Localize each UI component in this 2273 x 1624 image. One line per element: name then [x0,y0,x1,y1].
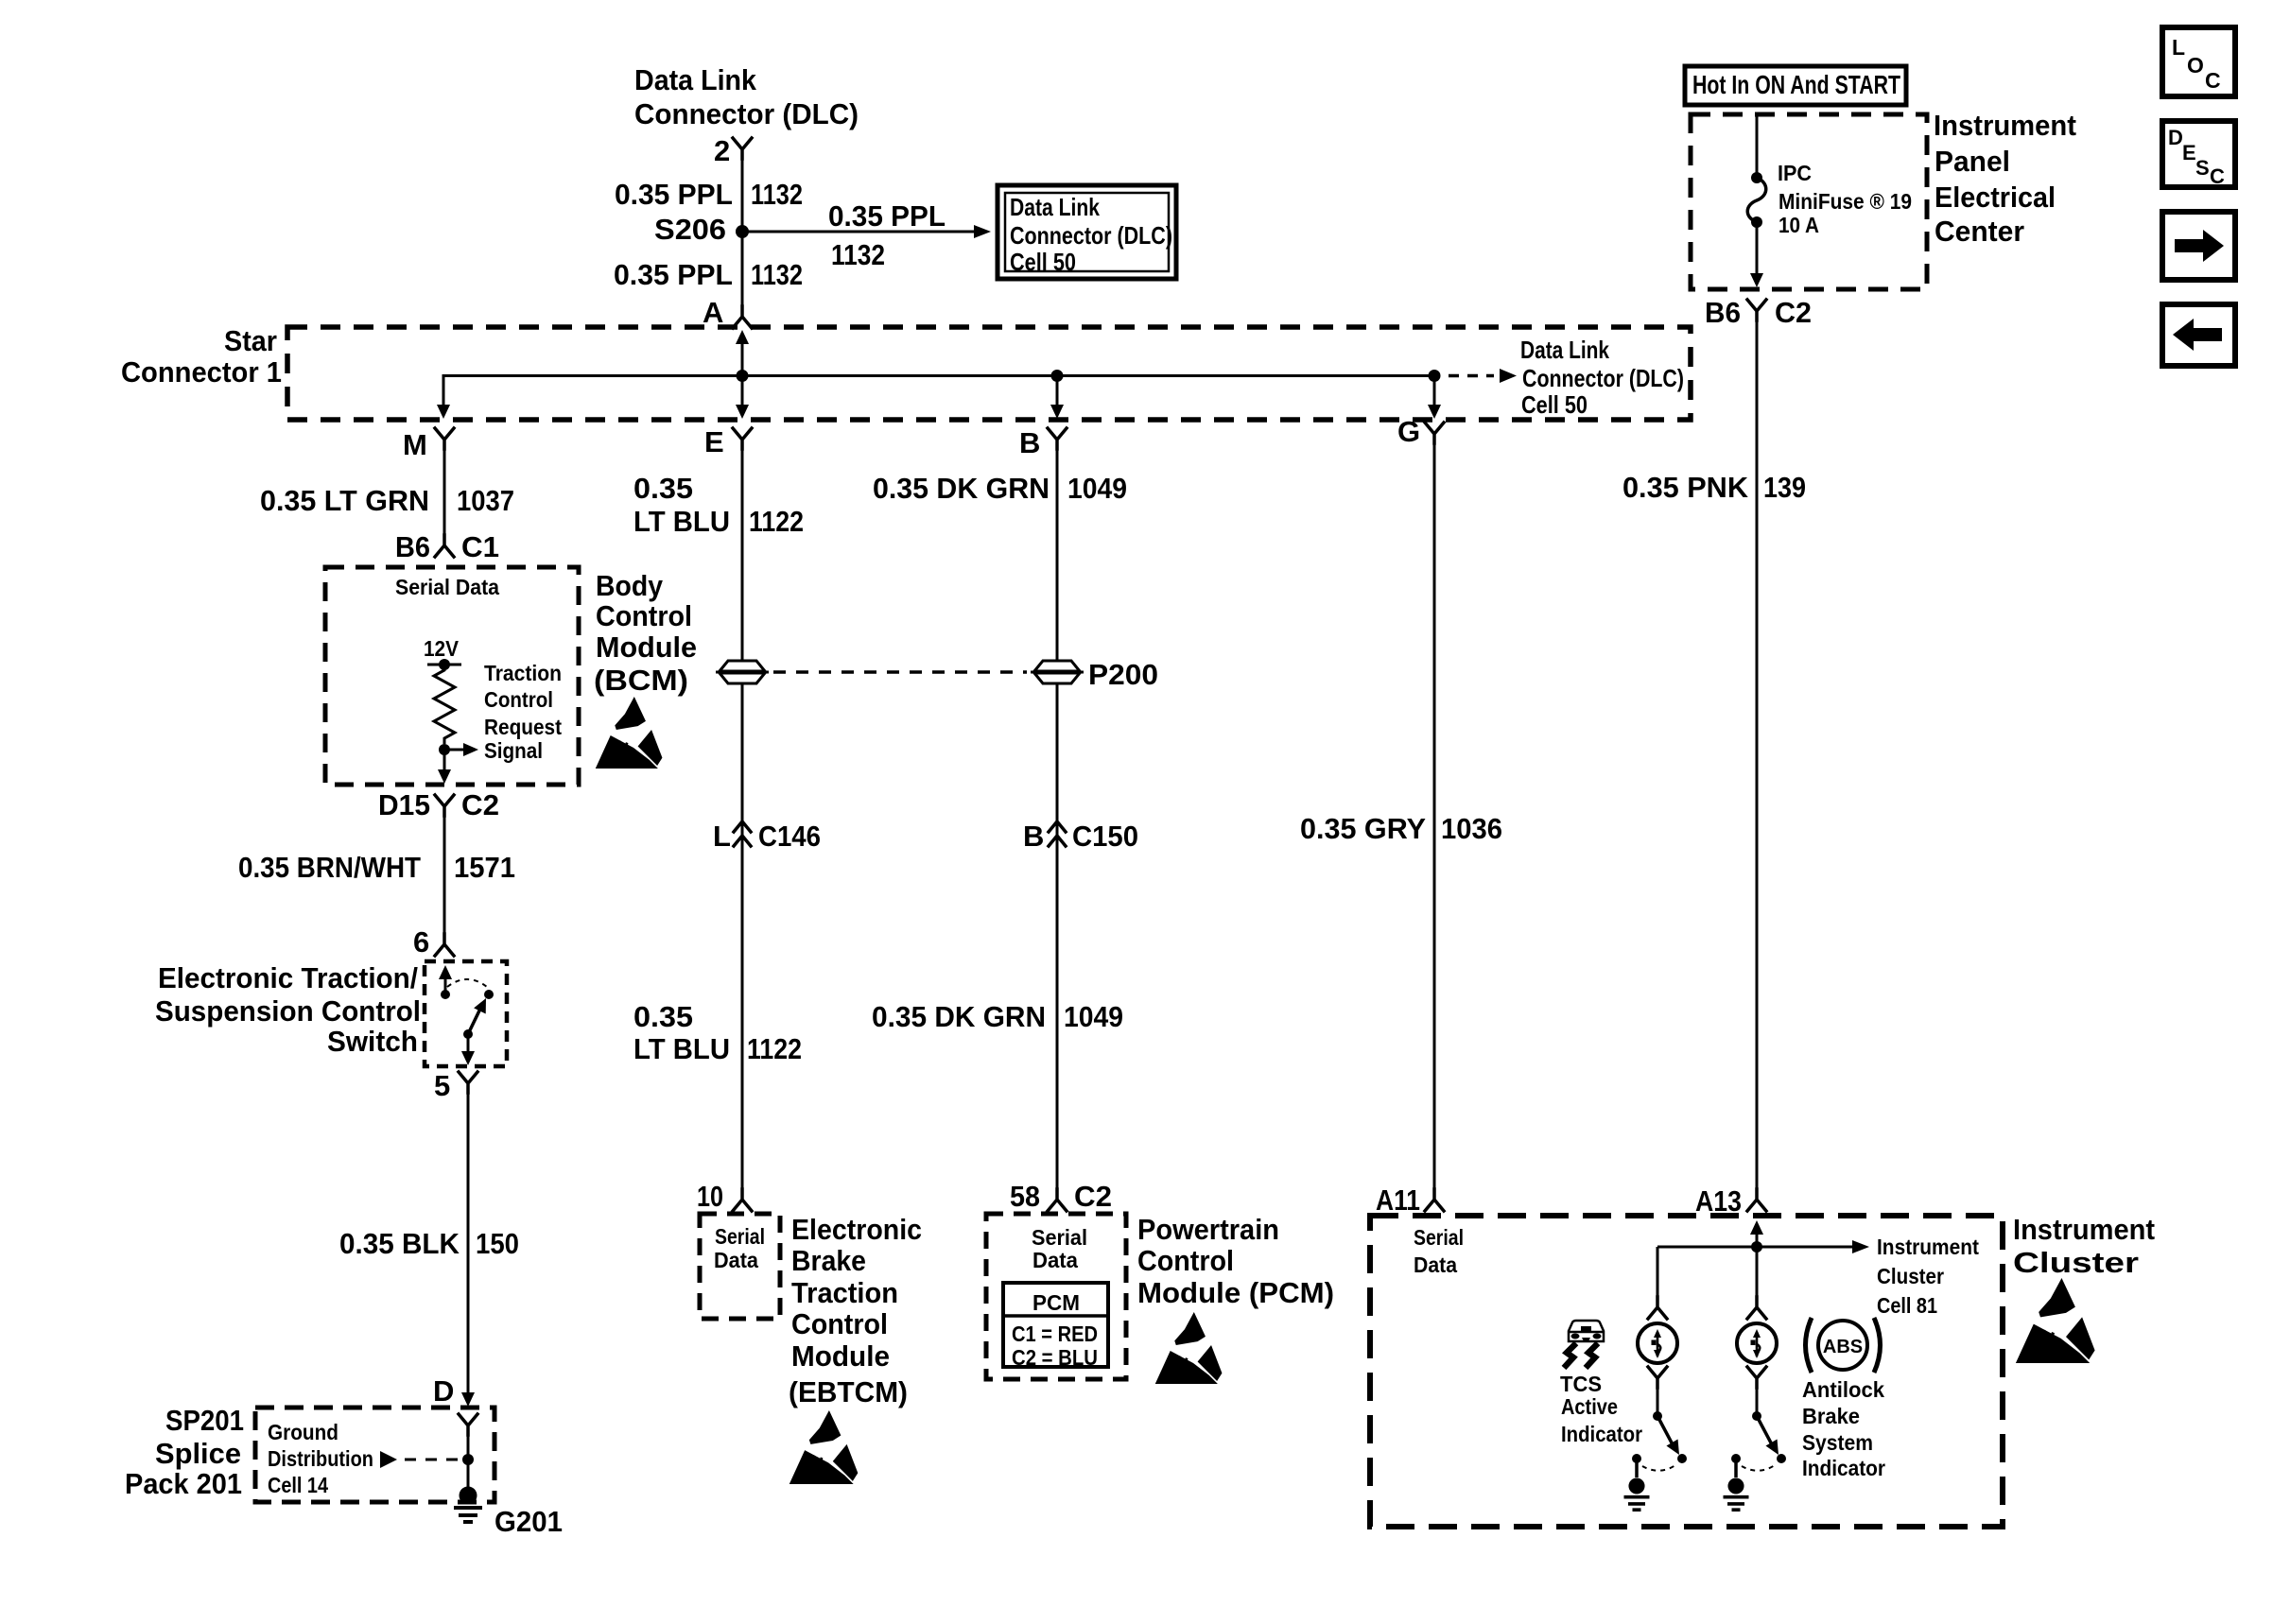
svg-text:2: 2 [714,134,730,167]
svg-text:Indicator: Indicator [1561,1422,1642,1446]
wire 0.35 BLK 150 [339,1093,519,1396]
svg-text:10: 10 [697,1180,723,1213]
wire A entering star connector (arrow up) [736,330,749,419]
switch blade with arrow [463,995,492,1039]
svg-text:1122: 1122 [749,505,804,538]
connector terminal 2 (fork up) [733,138,752,159]
wire 0.35 LT BLU 1122 lower [633,1000,802,1065]
svg-text:A13: A13 [1695,1184,1742,1218]
svg-text:D: D [2168,126,2183,149]
Electronic Traction/Suspension Control Switch dashed box [155,961,507,1066]
ESD symbol PCM [1155,1312,1223,1384]
svg-text:1571: 1571 [454,851,515,884]
PCM Serial Data dashed box [986,1214,1126,1379]
wire 0.35 PPL 1132 lower segment [741,232,744,306]
svg-text:B: B [1019,426,1040,459]
svg-text:Electronic Traction/: Electronic Traction/ [158,961,418,994]
svg-text:Brake: Brake [791,1244,866,1277]
svg-text:Module (PCM): Module (PCM) [1137,1276,1334,1309]
svg-text:58: 58 [1010,1180,1040,1213]
svg-text:LT BLU: LT BLU [633,1032,730,1065]
svg-text:150: 150 [476,1227,519,1260]
svg-text:Data Link: Data Link [1010,193,1100,221]
svg-text:10 A: 10 A [1778,213,1819,237]
wire A13 entering cluster (arrow up) [1750,1220,1763,1297]
ground G201 [454,1487,563,1539]
svg-text:1132: 1132 [751,178,803,211]
pin B6 C2 labels and terminal [1705,296,1812,329]
BCM Serial Data dashed box [325,567,579,785]
wire 0.35 PPL 1132 upper segment [741,159,744,232]
pin 5 label and terminal [434,1069,477,1102]
svg-text:Instrument: Instrument [2013,1213,2155,1246]
svg-text:B6: B6 [1705,296,1741,329]
svg-text:1049: 1049 [1064,1000,1123,1033]
svg-text:(EBTCM): (EBTCM) [789,1375,908,1408]
connector terminal A (fork down) [733,306,752,328]
svg-text:Data: Data [714,1248,758,1272]
svg-text:(BCM): (BCM) [594,664,688,697]
TCS driver switch [1642,1411,1687,1471]
svg-text:B: B [1023,820,1044,853]
svg-text:Connector 1: Connector 1 [121,355,282,389]
Instrument Panel Electrical Center dashed box [1691,109,2076,289]
svg-text:0.35 BLK: 0.35 BLK [339,1227,460,1260]
svg-text:P200: P200 [1088,658,1158,691]
wire 0.35 GRY 1036 [1300,443,1502,1189]
svg-text:Cell 81: Cell 81 [1877,1293,1937,1318]
pin G label and terminal [1397,415,1444,448]
svg-text:G201: G201 [495,1505,563,1538]
label Ground Distribution Cell 14 with arrow [268,1420,460,1497]
LOC navigation box [2162,27,2235,96]
svg-text:C150: C150 [1072,820,1138,853]
svg-text:Antilock: Antilock [1802,1377,1884,1402]
svg-text:Serial: Serial [715,1224,765,1249]
wire ABS lamp branch [1756,1301,1759,1304]
svg-text:Serial: Serial [1032,1225,1087,1250]
TCS Active Indicator lamp [1638,1323,1677,1363]
svg-text:Suspension Control: Suspension Control [155,994,421,1028]
splice pack terminal (fork up) [459,1414,477,1435]
svg-text:Serial: Serial [1414,1225,1464,1250]
wire branch B (arrow down) [1050,376,1064,420]
wire 0.35 BRN/WHT 1571 [238,816,515,934]
svg-text:Electronic: Electronic [791,1213,922,1246]
pin D label and entry arrow [433,1374,475,1408]
ABS icon [1806,1318,1881,1373]
svg-text:Control: Control [1137,1244,1234,1277]
wire label 0.35 PPL 1132 lower [614,258,803,291]
svg-text:1037: 1037 [457,484,514,517]
svg-text:1036: 1036 [1441,812,1502,845]
svg-text:Brake: Brake [1802,1404,1860,1428]
node lamp feed junction [1751,1241,1762,1253]
svg-text:PCM: PCM [1032,1290,1080,1315]
pin 6 label and terminal [413,925,454,959]
label Antilock Brake System Indicator [1802,1377,1885,1480]
svg-text:0.35: 0.35 [633,1000,693,1033]
svg-text:Splice: Splice [155,1437,241,1470]
ABS switch ground post [1731,1454,1741,1477]
svg-text:Module: Module [791,1339,890,1373]
svg-text:Indicator: Indicator [1802,1456,1885,1480]
svg-text:Connector (DLC): Connector (DLC) [634,97,859,130]
ground ABS indicator [1724,1477,1749,1510]
switch travel dashed arc [447,979,487,987]
svg-text:0.35 DK GRN: 0.35 DK GRN [873,472,1050,505]
svg-text:Cluster: Cluster [2013,1246,2139,1279]
svg-text:Hot In ON And START: Hot In ON And START [1692,70,1900,99]
svg-text:Module: Module [596,631,697,664]
svg-text:Switch: Switch [327,1025,418,1058]
svg-text:C1: C1 [461,530,499,563]
ABS driver switch [1742,1411,1786,1471]
svg-text:C: C [2205,68,2221,93]
svg-text:1132: 1132 [751,258,803,291]
node B junction [1051,370,1064,382]
node G junction [1429,370,1441,382]
svg-text:MiniFuse ® 19: MiniFuse ® 19 [1778,189,1912,214]
svg-text:G: G [1397,415,1420,448]
svg-text:Control: Control [596,599,692,632]
wire B lower to PCM [1056,682,1059,1189]
svg-text:S206: S206 [654,213,726,246]
svg-text:0.35 LT GRN: 0.35 LT GRN [260,484,429,517]
pin D15 C2 labels and terminal [378,788,499,821]
svg-text:Body: Body [596,569,664,602]
label box Data Link Connector (DLC) Cell 50 [998,185,1176,279]
right arrow navigation box [2162,212,2235,280]
svg-text:0.35 DK GRN: 0.35 DK GRN [872,1000,1046,1033]
svg-text:Center: Center [1935,215,2024,248]
wire to TCS driver switch [1657,1388,1659,1416]
svg-text:1132: 1132 [831,238,885,271]
svg-text:E: E [2182,141,2196,164]
label TCS Active Indicator [1560,1372,1642,1446]
ABS lamp output terminal [1747,1367,1766,1388]
pin 58 C2 labels and terminal [1010,1180,1112,1213]
svg-text:ABS: ABS [1823,1337,1863,1357]
node Data Link Connector (DLC) label [634,63,859,130]
svg-text:M: M [403,428,427,461]
svg-text:0.35: 0.35 [633,472,693,505]
switch pole (arrow up) [439,965,452,999]
Star Connector 1 dashed box [121,324,1691,420]
svg-text:Control: Control [791,1307,888,1340]
wire 0.35 DK GRN 1049 upper [873,449,1127,662]
pin M label and terminal [403,428,454,461]
wire TCS lamp branch [1657,1247,1659,1297]
wire to ABS driver switch [1756,1388,1759,1416]
label Body Control Module (BCM) [594,569,697,697]
svg-text:Panel: Panel [1935,145,2010,178]
node 12V supply [424,636,461,670]
svg-text:6: 6 [413,925,429,959]
pin E label and terminal [704,425,752,458]
svg-text:Cell 50: Cell 50 [1521,390,1588,419]
wire branch to Instrument Cluster Cell 81 (arrow right) [1657,1235,1979,1318]
grommet P200 at B wire [1031,661,1084,683]
svg-text:Request: Request [484,715,562,739]
svg-text:Active: Active [1561,1394,1618,1419]
svg-text:O: O [2187,53,2204,78]
svg-text:Star: Star [224,324,277,357]
wire from hot feed into fuse [1756,114,1759,178]
svg-text:0.35 BRN/WHT: 0.35 BRN/WHT [238,851,421,884]
pin A13 label and terminal [1695,1184,1766,1218]
svg-text:0.35 GRY: 0.35 GRY [1300,812,1426,845]
wire E lower to EBTCM [741,682,744,1189]
label Instrument Cluster (module name) [2013,1213,2155,1279]
svg-text:Instrument: Instrument [1934,109,2076,142]
svg-text:D: D [433,1374,454,1408]
svg-text:5: 5 [434,1069,450,1102]
wire label 0.35 PPL 1132 [615,178,803,211]
svg-text:Data Link: Data Link [634,63,757,96]
svg-text:0.35 PNK: 0.35 PNK [1622,471,1749,504]
svg-text:D15: D15 [378,788,430,821]
svg-text:Traction: Traction [791,1276,898,1309]
label Traction Control Request Signal [484,661,562,763]
switch output wire (arrow down) [461,1034,475,1065]
svg-text:Connector (DLC): Connector (DLC) [1522,364,1684,392]
svg-text:A11: A11 [1376,1183,1420,1217]
svg-text:IPC: IPC [1778,161,1812,185]
wire 0.35 DK GRN 1049 lower [872,1000,1123,1033]
pin B label and terminal [1019,426,1067,459]
svg-text:Serial Data: Serial Data [395,575,499,599]
svg-text:System: System [1802,1430,1873,1455]
TCS icon (car with skid marks) [1564,1321,1604,1368]
svg-text:SP201: SP201 [165,1404,244,1437]
Instrument Cluster dashed box [1370,1216,2003,1527]
pin B6 C1 labels and terminal [395,530,499,563]
connector B C150 (double chevron) [1023,820,1138,853]
label Powertrain Control Module (PCM) [1137,1213,1334,1309]
dashed arrow to Data Link Connector (DLC) Cell 50 label [1449,336,1684,419]
ESD symbol EBTCM [789,1410,859,1484]
svg-text:C2: C2 [461,788,499,821]
label Electronic Brake Traction Control Module (EBTCM) [789,1213,922,1408]
svg-text:B6: B6 [395,530,430,563]
svg-text:Signal: Signal [484,738,543,763]
splice S206 [654,213,749,246]
Antilock Brake System Indicator lamp [1737,1323,1777,1363]
TCS switch ground post [1632,1454,1641,1477]
svg-text:A: A [703,296,723,329]
svg-text:Connector (DLC): Connector (DLC) [1010,221,1172,250]
svg-text:Ground: Ground [268,1420,338,1444]
TCS lamp output terminal [1648,1367,1667,1388]
svg-text:0.35 PPL: 0.35 PPL [828,199,946,233]
svg-text:C1 = RED: C1 = RED [1012,1322,1098,1346]
svg-text:1122: 1122 [747,1032,802,1065]
ESD symbol BCM [596,697,663,769]
wire branch M (arrow down) [437,374,450,419]
svg-text:LT BLU: LT BLU [633,505,730,538]
svg-text:Instrument: Instrument [1877,1235,1979,1259]
svg-text:0.35 PPL: 0.35 PPL [614,258,733,291]
ground TCS indicator [1624,1477,1650,1510]
node splice junction [462,1454,474,1465]
ABS lamp input terminal [1747,1297,1766,1319]
svg-text:L: L [713,820,731,853]
PCM connector color table [1003,1283,1108,1370]
svg-text:139: 139 [1763,471,1806,504]
svg-text:C2 = BLU: C2 = BLU [1012,1345,1098,1370]
fuse IPC MiniFuse 19 10 A [1747,161,1912,237]
svg-text:Data: Data [1414,1253,1457,1277]
DESC navigation box [2162,121,2235,188]
left arrow navigation box [2162,304,2235,366]
svg-text:E: E [704,425,724,458]
svg-text:L: L [2172,35,2185,60]
wire fuse output (arrow down) [1750,222,1763,287]
svg-text:S: S [2195,156,2210,180]
node A junction on serial data bus [737,370,749,382]
svg-text:Data Link: Data Link [1520,336,1609,364]
svg-text:C146: C146 [758,820,821,853]
Hot In ON And START box [1685,66,1906,105]
serial data bus wire [443,374,1434,377]
TCS lamp input terminal [1648,1297,1667,1319]
node traction control request signal junction [439,743,478,756]
svg-text:Cluster: Cluster [1877,1264,1944,1288]
svg-text:Distribution: Distribution [268,1446,373,1471]
wire branch G (arrow down) [1428,376,1441,420]
svg-text:1049: 1049 [1067,472,1127,505]
ESD symbol Instrument Cluster [2016,1278,2095,1363]
pin 10 label and terminal [697,1180,752,1213]
wire 0.35 LT BLU 1122 upper [633,449,804,662]
svg-text:Data: Data [1032,1248,1078,1272]
wire 0.35 PNK 139 [1622,320,1806,1189]
svg-text:Pack 201: Pack 201 [125,1467,242,1500]
svg-text:Control: Control [484,687,553,712]
svg-text:Cell 14: Cell 14 [268,1473,328,1497]
svg-text:C2: C2 [1074,1180,1112,1213]
wire branch 0.35 PPL 1132 to DLC cell 50 (arrow) [742,199,991,271]
EBTCM Serial Data dashed box [700,1214,780,1319]
svg-text:TCS: TCS [1560,1372,1602,1396]
connector L C146 (double chevron) [713,820,821,853]
svg-text:12V: 12V [424,636,460,661]
switch throw contact [484,990,494,999]
SP201 Splice Pack 201 dashed box [125,1404,495,1502]
wire inside splice pack [467,1433,470,1487]
svg-text:C: C [2210,164,2225,188]
svg-text:Traction: Traction [484,661,562,685]
wire 0.35 LT GRN 1037 [260,449,514,535]
svg-text:0.35 PPL: 0.35 PPL [615,178,733,211]
resistor traction control request pull-up [434,665,455,744]
grommet P200 at E wire [716,661,769,683]
svg-text:Cell 50: Cell 50 [1010,248,1076,276]
wire to D15 (arrow down) [438,750,451,784]
svg-text:C2: C2 [1775,296,1812,329]
svg-text:Electrical: Electrical [1935,181,2056,214]
dashed pass-through link P200 [773,670,1027,674]
pin A11 label and terminal [1376,1183,1444,1217]
svg-text:Powertrain: Powertrain [1137,1213,1279,1246]
